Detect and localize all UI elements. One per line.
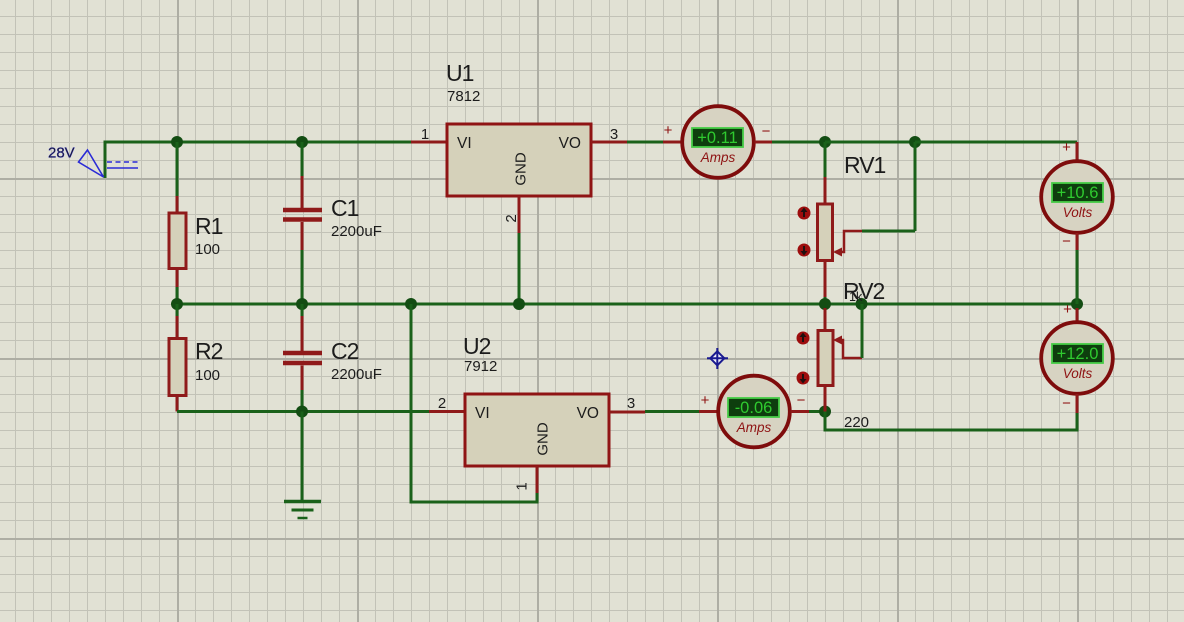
- svg-text:3: 3: [610, 126, 618, 143]
- svg-text:−: −: [797, 392, 806, 409]
- potentiometer RV2: [818, 278, 885, 431]
- middle bus wire: [177, 303, 1077, 306]
- svg-text:7912: 7912: [464, 358, 497, 375]
- resistor R2: [169, 304, 223, 412]
- RV2 increment button: [797, 332, 810, 345]
- node junction bus at C1/C2: [296, 298, 308, 310]
- resistor R1: [169, 142, 223, 304]
- wire U1 out to ammeter: [627, 141, 663, 144]
- wire ammeter to node A: [772, 141, 825, 144]
- wire node B to voltmeter V1: [915, 141, 1077, 144]
- wire node A to node B: [825, 141, 915, 144]
- svg-text:Amps: Amps: [736, 420, 772, 435]
- svg-text:GND: GND: [535, 422, 552, 456]
- svg-text:2200uF: 2200uF: [331, 223, 382, 240]
- ammeter AM2: [699, 376, 809, 448]
- svg-text:VI: VI: [457, 135, 472, 152]
- regulator U2 7912: [429, 333, 645, 493]
- svg-text:C1: C1: [331, 195, 359, 221]
- RV1 increment button: [798, 207, 811, 220]
- RV2 decrement button: [797, 372, 810, 385]
- svg-text:100: 100: [195, 367, 220, 384]
- svg-text:2: 2: [503, 214, 520, 222]
- node junction top rail at R1: [171, 136, 183, 148]
- svg-text:-0.06: -0.06: [735, 399, 773, 417]
- wire R2 bottom to U2 VI: [177, 410, 429, 413]
- svg-text:+: +: [1063, 301, 1072, 318]
- node junction at RV1 top: [819, 136, 831, 148]
- svg-text:−: −: [1062, 233, 1071, 250]
- ground: [284, 502, 321, 519]
- svg-text:GND: GND: [513, 152, 530, 186]
- svg-text:R2: R2: [195, 338, 223, 364]
- svg-text:1: 1: [421, 126, 429, 143]
- voltmeter V2: [1041, 301, 1113, 413]
- svg-text:+12.0: +12.0: [1057, 345, 1099, 363]
- svg-text:Volts: Volts: [1063, 366, 1093, 381]
- wire top rail from source corner to U1 pin1: [105, 142, 411, 178]
- svg-text:+: +: [701, 392, 710, 409]
- node junction bus at voltmeters: [1071, 298, 1083, 310]
- node junction bus at RV2 wiper: [856, 298, 868, 310]
- svg-text:RV2: RV2: [843, 278, 885, 304]
- svg-text:+0.11: +0.11: [697, 129, 738, 147]
- RV1 decrement button: [798, 244, 811, 257]
- svg-text:+: +: [1062, 139, 1071, 156]
- svg-text:3: 3: [627, 395, 635, 412]
- wire ground trunk: [301, 412, 304, 501]
- svg-text:2200uF: 2200uF: [331, 366, 382, 383]
- svg-text:28V: 28V: [48, 145, 75, 162]
- svg-text:2: 2: [438, 395, 446, 412]
- svg-text:U2: U2: [463, 333, 491, 359]
- capacitor C1: [283, 142, 382, 304]
- node junction bus at U1 GND: [513, 298, 525, 310]
- origin marker: [707, 348, 728, 369]
- node junction bus at R1/R2: [171, 298, 183, 310]
- svg-text:7812: 7812: [447, 88, 480, 105]
- potentiometer RV1: [818, 142, 916, 304]
- svg-text:VI: VI: [475, 405, 490, 422]
- svg-text:220: 220: [844, 414, 869, 431]
- svg-text:100: 100: [195, 241, 220, 258]
- svg-text:R1: R1: [195, 213, 223, 239]
- svg-text:C2: C2: [331, 338, 359, 364]
- wire U2 out to ammeter AM2: [645, 410, 699, 413]
- svg-text:−: −: [1062, 395, 1071, 412]
- node junction at C2 bottom / ground: [296, 406, 308, 418]
- svg-text:VO: VO: [577, 405, 599, 422]
- svg-text:+: +: [664, 122, 673, 139]
- voltmeter V1: [1041, 139, 1113, 304]
- node junction bus at ground branch: [405, 298, 417, 310]
- svg-text:U1: U1: [446, 60, 474, 86]
- node junction bus at RV1 bottom / RV2 top: [819, 298, 831, 310]
- node junction at RV1 wiper return: [909, 136, 921, 148]
- svg-text:+10.6: +10.6: [1057, 184, 1099, 202]
- capacitor C2: [283, 304, 382, 412]
- node junction at RV2 bottom: [819, 406, 831, 418]
- wire gnd net bus to U2 pin1: [411, 304, 537, 502]
- svg-text:Volts: Volts: [1063, 205, 1093, 220]
- power source 28V marker: [48, 145, 138, 178]
- svg-text:VO: VO: [559, 135, 581, 152]
- regulator U1 7812: [411, 60, 627, 304]
- ammeter AM1: [663, 106, 772, 178]
- svg-text:1: 1: [514, 482, 531, 490]
- node junction top rail at C1: [296, 136, 308, 148]
- svg-text:RV1: RV1: [844, 152, 886, 178]
- wire node C to voltmeter V2 minus: [825, 412, 1077, 431]
- svg-text:−: −: [762, 123, 771, 140]
- svg-text:Amps: Amps: [700, 150, 736, 165]
- wire ammeter AM2 to node C: [809, 410, 825, 413]
